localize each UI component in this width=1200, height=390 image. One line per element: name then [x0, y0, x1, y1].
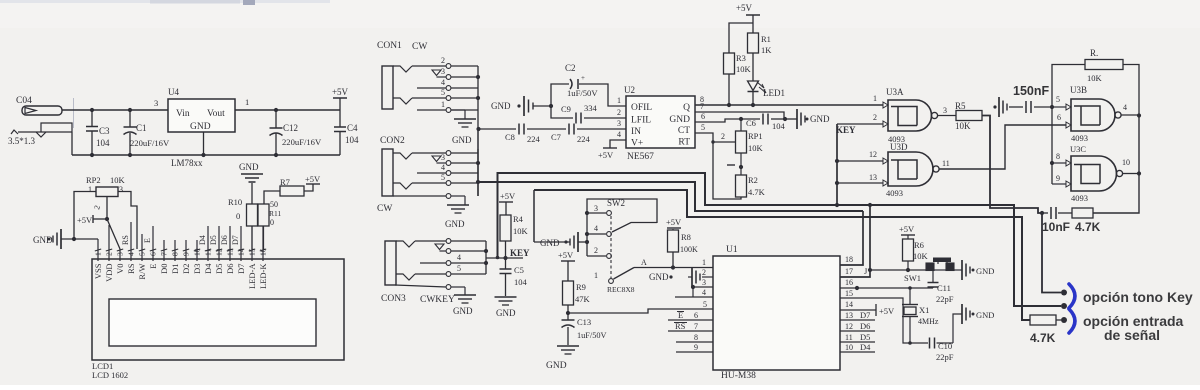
svg-text:13: 13	[869, 173, 877, 182]
resistor R2 4.7K	[736, 175, 766, 197]
wire U1 pin15 oscillator	[840, 297, 893, 299]
svg-text:CON3: CON3	[381, 294, 406, 304]
ground rail wire	[72, 132, 340, 157]
svg-text:10: 10	[1122, 158, 1130, 167]
svg-text:D4: D4	[860, 342, 871, 352]
svg-text:NE567: NE567	[627, 152, 654, 162]
svg-text:4: 4	[594, 224, 598, 233]
ground NE567 timing	[785, 109, 830, 129]
wire RP2 wiper to V0	[105, 197, 120, 250]
wire U1 data stubs D7-D4	[840, 320, 875, 352]
svg-text:4: 4	[702, 288, 706, 297]
connector CON2 jack	[377, 136, 480, 229]
svg-text:C4: C4	[347, 123, 358, 133]
svg-text:LFIL: LFIL	[631, 116, 651, 126]
node KEY	[486, 248, 530, 260]
svg-text:GND: GND	[649, 272, 669, 282]
svg-text:4.7K: 4.7K	[1075, 220, 1101, 234]
svg-text:C13: C13	[577, 317, 591, 327]
svg-text:4: 4	[441, 78, 445, 87]
svg-text:D4: D4	[203, 263, 213, 274]
svg-text:R9: R9	[576, 282, 586, 292]
svg-text:C5: C5	[514, 265, 524, 275]
svg-text:1K: 1K	[761, 45, 772, 55]
svg-text:C12: C12	[283, 123, 298, 133]
svg-text:2: 2	[105, 252, 114, 256]
svg-text:3: 3	[116, 252, 125, 256]
svg-text:13: 13	[845, 311, 853, 320]
ground U1 pin2	[649, 267, 713, 287]
nand gate U3D 4093	[837, 142, 950, 198]
svg-text:+5V: +5V	[332, 87, 349, 97]
resistor R9 47K	[563, 281, 591, 315]
wire CON2 tip to U1 pin18	[478, 182, 863, 211]
regulator U4 LM78xx	[168, 87, 235, 168]
wire R5 to tone output	[982, 116, 1044, 216]
svg-text:16: 16	[259, 248, 268, 256]
ground LCD left	[33, 229, 98, 249]
resistor R11	[258, 200, 281, 249]
svg-text:7: 7	[160, 252, 169, 256]
svg-text:1: 1	[245, 97, 249, 107]
resistor R7	[264, 177, 313, 204]
capacitor C11 22pF	[928, 270, 954, 304]
svg-text:104: 104	[772, 121, 786, 131]
svg-text:C10: C10	[938, 341, 952, 351]
svg-text:14: 14	[845, 300, 853, 309]
capacitor C5 104 with ground	[495, 258, 528, 318]
wire NE567 RT pin5	[695, 133, 741, 199]
svg-text:+5V: +5V	[77, 215, 93, 225]
svg-text:5: 5	[457, 264, 461, 273]
svg-text:104: 104	[96, 138, 110, 148]
svg-text:18: 18	[845, 255, 853, 264]
svg-text:4: 4	[1123, 103, 1127, 112]
svg-text:U3D: U3D	[890, 142, 908, 152]
svg-text:220uF/16V: 220uF/16V	[130, 138, 170, 148]
+5V tone indicator	[736, 3, 760, 33]
svg-text:104: 104	[345, 135, 359, 145]
wire jack to U4 Vin pin 3	[62, 98, 168, 110]
jack sleeve contact 3.5*1.3	[8, 123, 72, 146]
svg-text:15: 15	[845, 289, 853, 298]
svg-text:GND: GND	[190, 122, 211, 132]
+5V LCD backlight	[305, 174, 321, 184]
svg-text:C04: C04	[16, 96, 32, 106]
wire U3D output to U3B	[939, 125, 1066, 169]
svg-text:C3: C3	[99, 126, 110, 136]
svg-text:R7: R7	[280, 177, 290, 187]
svg-text:CW: CW	[412, 42, 427, 52]
label opcion tono Key	[1083, 289, 1193, 305]
capacitor C3 104	[86, 108, 110, 155]
svg-text:GND: GND	[810, 114, 830, 124]
svg-text:11: 11	[845, 333, 853, 342]
svg-text:CT: CT	[678, 126, 690, 136]
wire buffer output	[1093, 116, 1139, 214]
svg-text:11: 11	[204, 248, 213, 256]
svg-text:+5V: +5V	[879, 306, 895, 316]
svg-text:1: 1	[873, 94, 877, 103]
option braces blue	[1069, 284, 1075, 308]
capacitor C9 334	[551, 103, 626, 124]
svg-text:220uF/16V: 220uF/16V	[282, 137, 322, 147]
capacitor C2 1uF/50V	[549, 63, 626, 108]
+5V NE567 supply pin4	[598, 140, 626, 160]
svg-text:10K: 10K	[748, 143, 764, 153]
switch SW1 pushbutton	[868, 258, 962, 284]
svg-text:SW2: SW2	[607, 198, 625, 208]
wire R9 to U1 pin5	[568, 309, 713, 313]
switch SW2 REC8X8	[585, 198, 713, 294]
wire RP2 pin1 to ground	[74, 192, 96, 240]
svg-text:334: 334	[584, 103, 598, 113]
svg-text:+5V: +5V	[558, 250, 574, 260]
svg-text:R4: R4	[513, 214, 524, 224]
svg-text:3: 3	[154, 98, 158, 108]
svg-text:R2: R2	[748, 175, 758, 185]
svg-text:2: 2	[873, 113, 877, 122]
wire bus to U1 pin18	[840, 211, 863, 265]
wire U4 GND to rail	[201, 132, 205, 157]
svg-text:8: 8	[694, 333, 698, 342]
capacitor C1 220uF/16V	[124, 108, 170, 155]
svg-text:Q: Q	[683, 103, 690, 113]
svg-text:4.7K: 4.7K	[748, 187, 766, 197]
svg-text:CON1: CON1	[377, 41, 402, 51]
svg-text:LCD 1602: LCD 1602	[92, 370, 128, 380]
wire KEY to gate inputs	[835, 124, 883, 207]
svg-text:2: 2	[721, 132, 725, 141]
svg-text:OFIL: OFIL	[631, 103, 652, 113]
svg-text:D3: D3	[192, 264, 202, 274]
svg-text:3: 3	[594, 204, 598, 213]
resistor R5 10K	[955, 101, 982, 131]
svg-text:C1: C1	[136, 123, 147, 133]
tone decoder U2 NE567	[617, 85, 705, 162]
wire U1 E RS stubs	[668, 320, 713, 352]
svg-text:7: 7	[694, 322, 698, 331]
svg-text:12: 12	[845, 322, 853, 331]
svg-text:+5V: +5V	[305, 174, 321, 184]
svg-text:R3: R3	[736, 53, 746, 63]
svg-text:3: 3	[702, 278, 706, 287]
svg-text:D6: D6	[225, 264, 235, 274]
svg-text:+5V: +5V	[666, 217, 682, 227]
svg-text:D0: D0	[159, 264, 169, 274]
resistor R1 1K	[748, 33, 773, 55]
svg-text:de señal: de señal	[1104, 327, 1160, 343]
capacitor C13 1uF/50V with ground	[546, 313, 607, 371]
svg-text:C9: C9	[561, 104, 571, 114]
U1 left pin numbers	[674, 258, 707, 352]
svg-text:U1: U1	[726, 245, 738, 255]
svg-text:LED-K: LED-K	[258, 263, 268, 289]
svg-text:VSS: VSS	[93, 263, 103, 279]
svg-text:+5V: +5V	[500, 191, 516, 201]
svg-text:1uF/50V: 1uF/50V	[577, 331, 607, 340]
svg-text:100K: 100K	[680, 245, 698, 254]
svg-text:9: 9	[1056, 174, 1060, 183]
wire NE567 CT pin6	[695, 119, 741, 122]
wire to R3	[729, 23, 753, 53]
svg-text:D4: D4	[198, 235, 207, 245]
svg-text:VDD: VDD	[104, 264, 114, 282]
wire KEY to U1 pin17 J	[840, 203, 872, 277]
svg-text:10K: 10K	[736, 64, 752, 74]
wire RP1 wiper	[711, 132, 736, 144]
svg-text:C2: C2	[565, 63, 576, 73]
svg-text:10K: 10K	[110, 175, 126, 185]
net labels RS E D4 D5 D6 D7	[121, 235, 240, 245]
svg-text:CWKEY: CWKEY	[420, 295, 455, 305]
svg-text:HU-M38: HU-M38	[721, 371, 756, 381]
svg-text:V+: V+	[631, 139, 643, 149]
svg-text:1: 1	[702, 258, 706, 267]
svg-text:RS: RS	[126, 263, 136, 274]
svg-text:10K: 10K	[955, 121, 971, 131]
svg-text:4: 4	[441, 163, 445, 172]
svg-text:D5: D5	[860, 332, 870, 342]
svg-text:4093: 4093	[886, 188, 903, 198]
wire jack bus	[477, 129, 479, 196]
svg-text:22pF: 22pF	[936, 352, 954, 362]
U1 right pin numbers	[845, 255, 871, 352]
capacitor C4 104	[334, 110, 359, 155]
diode LED1	[748, 53, 786, 105]
svg-text:13: 13	[226, 248, 235, 256]
capacitor 10nF output	[1042, 207, 1070, 234]
svg-text:2: 2	[441, 56, 445, 65]
svg-text:2: 2	[594, 246, 598, 255]
wire U1 pin16 oscillator	[840, 286, 933, 290]
crystal X1 4MHz	[902, 286, 939, 345]
ground oscillator	[962, 304, 994, 324]
connector CON3 jack	[381, 239, 488, 316]
svg-text:6: 6	[701, 112, 705, 121]
svg-text:D7: D7	[231, 235, 240, 245]
svg-text:D1: D1	[170, 264, 180, 274]
capacitors C8 C7 224 input coupling	[476, 124, 626, 145]
svg-text:D7: D7	[236, 264, 246, 274]
resistor R4 10K	[499, 191, 529, 258]
svg-text:U3A: U3A	[886, 87, 904, 97]
svg-text:GND: GND	[491, 101, 511, 111]
svg-text:10nF: 10nF	[1042, 220, 1070, 234]
svg-text:C11: C11	[937, 283, 951, 293]
resistor 4.7K option input	[1030, 315, 1067, 345]
svg-text:10: 10	[193, 248, 202, 256]
svg-text:GND: GND	[546, 361, 567, 371]
svg-text:REC8X8: REC8X8	[607, 285, 635, 294]
svg-text:Vout: Vout	[207, 109, 225, 119]
wire tone output to option terminal	[1042, 213, 1067, 296]
svg-text:X1: X1	[919, 305, 929, 315]
label opcion entrada de senal	[1083, 313, 1184, 343]
svg-text:0: 0	[236, 211, 240, 221]
svg-text:4.7K: 4.7K	[1030, 331, 1056, 345]
svg-text:12: 12	[215, 248, 224, 256]
svg-text:5: 5	[138, 252, 147, 256]
svg-text:4: 4	[127, 252, 136, 256]
svg-text:1uF/50V: 1uF/50V	[567, 88, 598, 98]
svg-text:8: 8	[171, 252, 180, 256]
svg-text:1: 1	[94, 252, 103, 256]
svg-text:+5V: +5V	[899, 224, 915, 234]
svg-text:C8: C8	[505, 132, 515, 142]
+5V R9 supply	[558, 250, 575, 281]
svg-text:12: 12	[869, 150, 877, 159]
svg-text:GND: GND	[976, 266, 994, 276]
svg-text:+5V: +5V	[736, 3, 753, 13]
resistor 4.7K output	[1058, 208, 1101, 234]
svg-text:3: 3	[441, 67, 445, 76]
svg-text:GND: GND	[976, 310, 994, 320]
svg-text:D5: D5	[214, 264, 224, 274]
resistor R3 10K	[724, 53, 752, 105]
LCD1 LCD1602 module	[92, 259, 344, 380]
svg-text:9: 9	[182, 252, 191, 256]
potentiometer RP2 10K	[86, 175, 126, 211]
wire to feedback resistor	[1052, 65, 1085, 108]
svg-text:GND: GND	[445, 219, 465, 229]
wire U4 Vout to +5V	[235, 97, 340, 112]
svg-text:RS: RS	[121, 235, 130, 245]
svg-text:CW: CW	[377, 204, 392, 214]
resistor R8 100K	[666, 217, 698, 268]
svg-text:A: A	[641, 258, 647, 267]
svg-text:6: 6	[1057, 113, 1061, 122]
svg-text:104: 104	[514, 277, 528, 287]
svg-text:5: 5	[441, 88, 445, 97]
svg-text:U4: U4	[168, 87, 179, 97]
svg-text:5: 5	[441, 173, 445, 182]
svg-text:4MHz: 4MHz	[918, 317, 939, 326]
ground above R10	[239, 162, 263, 204]
svg-text:GND: GND	[453, 306, 473, 316]
svg-text:50: 50	[270, 200, 278, 209]
svg-text:+5V: +5V	[598, 150, 614, 160]
+5V reset	[899, 224, 915, 239]
svg-text:7: 7	[700, 102, 704, 111]
svg-text:2: 2	[617, 108, 621, 117]
svg-text:D6: D6	[220, 235, 229, 245]
svg-text:opción tono Key: opción tono Key	[1083, 289, 1193, 305]
svg-text:3: 3	[119, 185, 123, 194]
wire RP2 pin3	[118, 192, 137, 250]
svg-text:R1: R1	[761, 34, 771, 44]
svg-text:224: 224	[527, 134, 541, 144]
svg-text:1: 1	[617, 96, 621, 105]
svg-text:RT: RT	[678, 138, 690, 148]
+5V LCD contrast	[77, 215, 107, 225]
potentiometer RP1 10K	[727, 119, 764, 175]
svg-text:D7: D7	[860, 310, 870, 320]
svg-text:LM78xx: LM78xx	[171, 158, 203, 168]
svg-text:4: 4	[617, 130, 621, 139]
svg-text:R/W: R/W	[137, 264, 147, 280]
svg-text:5: 5	[1056, 95, 1060, 104]
nand gate U3C 4093	[1052, 144, 1141, 203]
svg-text:3: 3	[617, 119, 621, 128]
svg-text:17: 17	[845, 267, 853, 276]
svg-text:10: 10	[845, 343, 853, 352]
svg-text:+: +	[581, 74, 585, 82]
capacitor C12 220uF/16V	[270, 110, 322, 157]
svg-text:C6: C6	[746, 118, 756, 128]
svg-text:GND: GND	[669, 115, 690, 125]
svg-text:224: 224	[577, 134, 591, 144]
wire oscillator node to U3C	[1050, 107, 1054, 184]
svg-text:4093: 4093	[1071, 133, 1088, 143]
svg-text:150nF: 150nF	[1013, 84, 1049, 98]
svg-text:1: 1	[88, 185, 92, 194]
svg-text:10K: 10K	[513, 226, 529, 236]
svg-text:5: 5	[703, 300, 707, 309]
svg-text:0: 0	[270, 218, 274, 227]
microcontroller U1 HU-M38	[713, 245, 840, 381]
wire NE567 Q output	[695, 103, 883, 107]
capacitor C10 22pF	[893, 298, 962, 362]
ground SW1	[962, 260, 994, 280]
nand gate U3B 4093	[1052, 85, 1139, 143]
svg-text:CON2: CON2	[380, 136, 405, 146]
ground SW2	[540, 232, 589, 252]
svg-text:KEY: KEY	[836, 125, 856, 135]
scan artifact top edge	[0, 0, 330, 3]
resistor R10 0	[228, 197, 258, 249]
resistor R6 10K	[903, 239, 929, 272]
+5V supply	[332, 87, 349, 110]
svg-text:8: 8	[1056, 152, 1060, 161]
svg-text:3: 3	[943, 106, 947, 115]
svg-text:IN: IN	[631, 127, 641, 137]
svg-text:LED1: LED1	[763, 88, 785, 98]
scan artifact fold line	[73, 98, 75, 128]
svg-text:D2: D2	[181, 264, 191, 274]
wire KEY bus to option	[498, 173, 1068, 309]
svg-text:5: 5	[701, 123, 705, 132]
svg-text:U3C: U3C	[1070, 144, 1086, 154]
svg-text:15: 15	[248, 248, 257, 256]
wire U1 pins 3 4	[675, 285, 713, 297]
+5V U1 pin14	[840, 304, 895, 316]
resistor R. 10K feedback	[1085, 48, 1141, 118]
wire NE567 GND pin7	[695, 112, 784, 119]
svg-text:U2: U2	[624, 85, 635, 95]
svg-text:10K: 10K	[1087, 73, 1103, 83]
svg-text:D5: D5	[209, 235, 218, 245]
connector CON1 jack	[377, 41, 480, 145]
svg-text:Vin: Vin	[176, 109, 190, 119]
svg-text:22pF: 22pF	[936, 294, 954, 304]
LCD pin stubs and pin numbers 1-16	[94, 222, 268, 261]
svg-text:4: 4	[457, 253, 461, 262]
svg-text:6: 6	[694, 311, 698, 320]
svg-text:R11: R11	[269, 209, 281, 218]
svg-text:R5: R5	[955, 101, 966, 111]
svg-text:GND: GND	[452, 135, 472, 145]
svg-text:R6: R6	[914, 240, 924, 250]
capacitor C6 104	[739, 114, 787, 132]
svg-text:RP1: RP1	[748, 131, 763, 141]
svg-text:3: 3	[441, 153, 445, 162]
connector C04 DC power jack	[16, 96, 62, 115]
svg-text:GND: GND	[496, 308, 516, 318]
svg-text:RP2: RP2	[86, 175, 101, 185]
svg-text:14: 14	[237, 248, 246, 256]
nand gate U3A 4093	[873, 87, 956, 144]
